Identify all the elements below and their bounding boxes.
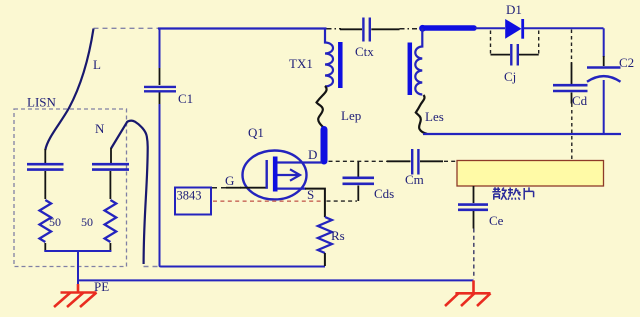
capacitor LISN left plates bbox=[27, 164, 64, 169]
diode D1 lead left bbox=[475, 27, 505, 29]
diode D1 cathode bar bbox=[521, 19, 524, 39]
transistor Q1 gate lead bbox=[240, 187, 266, 189]
svg-text:Cd: Cd bbox=[572, 93, 588, 108]
svg-text:D: D bbox=[308, 147, 317, 162]
svg-text:L: L bbox=[93, 57, 101, 72]
svg-text:Ce: Ce bbox=[489, 213, 504, 228]
heat sink box bbox=[457, 161, 604, 187]
svg-text:LISN: LISN bbox=[27, 95, 57, 110]
svg-text:TX1: TX1 bbox=[289, 56, 313, 71]
snubber dashed box left bbox=[490, 31, 492, 55]
diode D1 triangle bbox=[505, 19, 521, 39]
wire C1 top bbox=[159, 29, 161, 69]
capacitor Ctx lead right dashdot bbox=[400, 28, 421, 30]
capacitor Cd lead bottom bbox=[571, 93, 573, 104]
svg-text:N: N bbox=[95, 121, 105, 136]
wire LISN to PE bbox=[77, 251, 79, 285]
ground PE left bbox=[54, 284, 97, 307]
capacitor Cds plates bbox=[343, 178, 375, 184]
transformer primary winding bbox=[325, 29, 333, 87]
resistor 50 left bbox=[40, 200, 52, 242]
svg-text:50: 50 bbox=[49, 215, 61, 229]
svg-text:S: S bbox=[307, 187, 314, 202]
wire source to Rs corner bbox=[305, 189, 325, 217]
capacitor C2 bottom arc plate bbox=[587, 76, 621, 82]
svg-text:3843: 3843 bbox=[177, 189, 202, 203]
diode D1 lead right bbox=[524, 27, 604, 29]
capacitor Cm plates bbox=[412, 149, 418, 175]
resistor 50 left lead bottom bbox=[44, 243, 46, 251]
snubber dashed box right bbox=[538, 31, 540, 55]
capacitor C1 lead top bbox=[159, 67, 161, 85]
svg-text:G: G bbox=[225, 173, 234, 188]
transistor Q1 arrow bbox=[278, 169, 301, 180]
wire dashed Ce to PE rail bbox=[473, 229, 475, 280]
capacitor Cj lead left bbox=[491, 54, 511, 56]
capacitor Cj lead right bbox=[519, 54, 539, 56]
capacitor LISN left lead bottom bbox=[44, 171, 46, 199]
wire thick drain bar bbox=[321, 130, 328, 162]
resistor Rs bbox=[318, 217, 332, 253]
capacitor Ctx lead left bbox=[340, 28, 362, 30]
wire C2 bottom bbox=[603, 80, 605, 134]
wire C2 top bbox=[603, 28, 605, 57]
wire dashed Cds to source bbox=[327, 200, 358, 202]
transformer primary core bar bbox=[338, 42, 343, 88]
transformer secondary core bar bbox=[408, 43, 413, 96]
ic U1 3843 box bbox=[175, 188, 211, 215]
wire LISN bottom bbox=[44, 250, 111, 252]
svg-text:Cj: Cj bbox=[504, 69, 516, 84]
wire secondary bottom rail bbox=[423, 133, 621, 135]
capacitor Cj plates bbox=[511, 44, 518, 66]
transistor Q1 gate bar bbox=[266, 160, 268, 189]
svg-text:Cds: Cds bbox=[374, 186, 394, 201]
capacitor C1 lead bottom bbox=[159, 93, 161, 106]
capacitor Cm lead left bbox=[387, 160, 411, 162]
resistor 50 right bbox=[105, 200, 117, 242]
svg-text:C1: C1 bbox=[178, 91, 193, 106]
capacitor Ce plates bbox=[458, 205, 488, 210]
svg-text:Q1: Q1 bbox=[248, 125, 264, 140]
capacitor LISN right lead top bbox=[110, 148, 112, 163]
wire dashed drain node to Cm bbox=[329, 160, 389, 162]
transistor Q1 source lead bbox=[277, 188, 306, 190]
svg-text:Lep: Lep bbox=[341, 108, 361, 123]
LISN dashed box bbox=[14, 109, 127, 267]
capacitor Ce lead top bbox=[473, 186, 475, 203]
wire top rail bbox=[158, 27, 327, 29]
capacitor Cd lead top bbox=[571, 63, 573, 85]
wire thick secondary top bar bbox=[423, 25, 475, 31]
capacitor LISN right lead bottom bbox=[109, 171, 111, 199]
transistor Q1 body circle bbox=[243, 151, 307, 200]
transistor Q1 drain lead bbox=[277, 161, 322, 163]
capacitor Ctx lead left dashdot bbox=[327, 28, 342, 30]
capacitor Cd dashed top bbox=[571, 30, 573, 64]
inductor Lep squiggle bbox=[317, 86, 327, 128]
capacitor Cm lead right bbox=[420, 160, 443, 162]
label heat sink (san re pian glyphs) bbox=[492, 187, 533, 200]
capacitor Ctx plates bbox=[363, 18, 369, 42]
svg-text:Rs: Rs bbox=[331, 228, 345, 243]
transformer secondary winding bbox=[415, 29, 422, 95]
capacitor LISN right plates bbox=[92, 164, 129, 169]
wire Rs bottom bbox=[324, 253, 326, 266]
capacitor Cd plates bbox=[553, 85, 588, 91]
svg-text:Les: Les bbox=[425, 109, 444, 124]
svg-text:Cm: Cm bbox=[405, 172, 424, 187]
wire N drop bbox=[144, 147, 148, 264]
wire dashed L to top rail bbox=[94, 27, 159, 29]
resistor 50 right lead bottom bbox=[109, 243, 111, 251]
wire L curve bbox=[45, 29, 93, 151]
ground PE right bbox=[445, 280, 491, 306]
svg-text:C2: C2 bbox=[619, 55, 634, 70]
inductor Les squiggle bbox=[416, 95, 427, 134]
wire 3843 gate solid bbox=[226, 187, 241, 189]
capacitor LISN left lead top bbox=[44, 149, 46, 163]
capacitor Cds lead bottom bbox=[357, 186, 359, 202]
svg-text:50: 50 bbox=[81, 215, 93, 229]
capacitor C2 lead top bbox=[603, 56, 605, 66]
wire dashed red 3843 to source bbox=[213, 200, 321, 202]
wire dashed N to C1 return bbox=[144, 266, 159, 268]
svg-text:D1: D1 bbox=[506, 2, 522, 17]
wire dashed Cm to heatsink bbox=[444, 160, 457, 162]
capacitor Ce lead bottom bbox=[473, 211, 475, 229]
node secondary top junction bbox=[419, 25, 426, 32]
capacitor Cds lead top bbox=[357, 161, 359, 176]
capacitor C1 plates bbox=[144, 87, 176, 91]
capacitor Cd dashed bottom to heatsink bbox=[571, 104, 573, 161]
wire dashed 3843 to gate bbox=[212, 187, 227, 189]
wire N curve hump bbox=[111, 121, 148, 149]
wire C1 bottom return to Rs bbox=[160, 104, 326, 267]
capacitor C2 top plate bbox=[587, 66, 621, 69]
svg-text:Ctx: Ctx bbox=[355, 44, 374, 59]
capacitor Ctx lead right bbox=[371, 28, 399, 30]
wire PE rail bbox=[78, 279, 474, 281]
transistor Q1 channel bar bbox=[273, 157, 278, 192]
